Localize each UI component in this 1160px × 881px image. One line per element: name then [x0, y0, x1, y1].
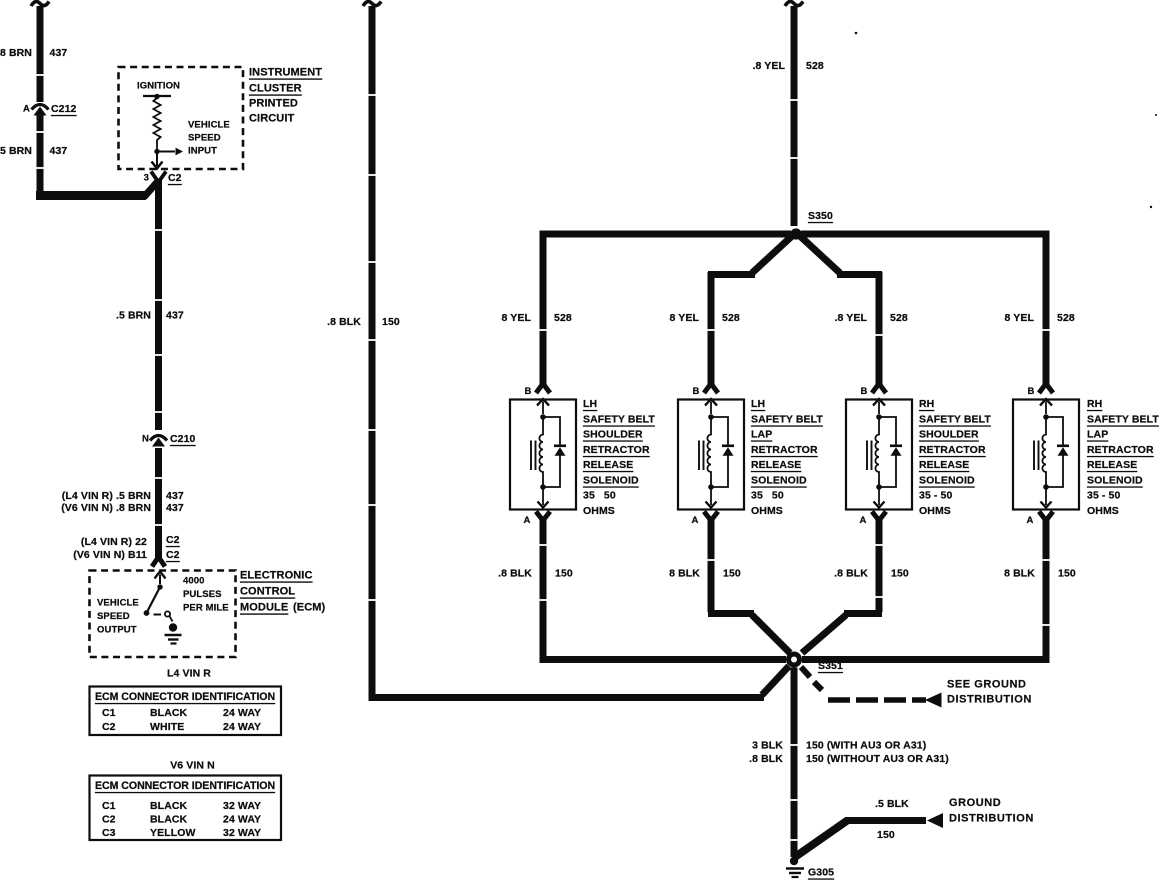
svg-text:OHMS: OHMS	[1087, 505, 1119, 517]
label solenoid description at x=919	[919, 398, 991, 517]
table: V6 VIN N ECM connector identification	[90, 776, 282, 841]
svg-text:RETRACTOR: RETRACTOR	[919, 444, 986, 456]
svg-text:C2: C2	[166, 534, 180, 546]
connector C2 pin 3 (male arrow up)	[151, 172, 159, 183]
svg-text:YELLOW: YELLOW	[150, 827, 196, 839]
svg-text:DISTRIBUTION: DISTRIBUTION	[949, 813, 1034, 825]
splice S351 junction ring	[786, 652, 802, 668]
svg-text:RELEASE: RELEASE	[583, 459, 633, 471]
svg-text:C3: C3	[102, 827, 116, 839]
svg-text:.5 BRN: .5 BRN	[116, 310, 151, 322]
svg-text:(L4 VIN R) .5 BRN: (L4 VIN R) .5 BRN	[62, 490, 151, 502]
svg-text:OUTPUT: OUTPUT	[97, 625, 137, 636]
svg-text:(L4 VIN R) 22: (L4 VIN R) 22	[81, 536, 147, 548]
svg-text:SAFETY BELT: SAFETY BELT	[1087, 414, 1159, 426]
svg-text:LH: LH	[583, 398, 597, 410]
svg-text:G305: G305	[808, 867, 834, 879]
svg-text:PULSES: PULSES	[183, 589, 222, 600]
svg-text:C1: C1	[102, 707, 116, 719]
svg-text:150: 150	[555, 568, 573, 580]
speck artifacts (decorative)	[855, 32, 858, 35]
svg-text:ECM CONNECTOR IDENTIFICATION: ECM CONNECTOR IDENTIFICATION	[95, 780, 275, 792]
svg-text:SHOULDER: SHOULDER	[583, 429, 643, 441]
svg-text:B: B	[693, 386, 700, 397]
svg-text:B: B	[1028, 386, 1035, 397]
svg-text:C1: C1	[102, 800, 116, 812]
svg-text:B: B	[861, 386, 868, 397]
svg-text:PRINTED: PRINTED	[249, 98, 298, 110]
svg-text:.8 BLK: .8 BLK	[498, 568, 532, 580]
svg-text:RELEASE: RELEASE	[1087, 459, 1137, 471]
svg-text:ECM CONNECTOR IDENTIFICATION: ECM CONNECTOR IDENTIFICATION	[95, 691, 275, 703]
svg-text:RH: RH	[1087, 398, 1102, 410]
svg-text:(V6 VIN N) B11: (V6 VIN N) B11	[73, 549, 147, 561]
svg-text:N: N	[142, 434, 149, 445]
svg-text:528: 528	[806, 60, 824, 72]
table: L4 VIN R ECM connector identification	[90, 687, 282, 736]
svg-text:.8 YEL: .8 YEL	[752, 60, 785, 72]
wire: .8 BLK 150 (middle, down to S351)	[372, 6, 764, 698]
svg-text:SEE GROUND: SEE GROUND	[947, 679, 1026, 691]
scan nicks (decorative)	[36, 74, 44, 76]
svg-text:L4 VIN R: L4 VIN R	[167, 668, 211, 680]
svg-text:.8 YEL: .8 YEL	[834, 312, 867, 324]
svg-text:8 YEL: 8 YEL	[670, 312, 700, 324]
node: switch pivot dot	[157, 584, 162, 589]
svg-text:SHOULDER: SHOULDER	[919, 429, 979, 441]
wire: diagonal from middle .8 BLK wire up to S351	[762, 666, 789, 695]
svg-text:IGNITION: IGNITION	[137, 81, 180, 92]
svg-text:.5 BLK: .5 BLK	[875, 798, 909, 810]
svg-text:A: A	[23, 104, 30, 115]
svg-text:.8 BLK: .8 BLK	[834, 568, 868, 580]
connector: harness terminal at solenoid top	[536, 384, 543, 394]
connector C212 (in-line, female arc over male arrow)	[32, 105, 49, 116]
svg-text:CONTROL: CONTROL	[240, 586, 295, 598]
svg-text:.5 BRN: .5 BRN	[0, 145, 32, 157]
svg-text:528: 528	[890, 312, 908, 324]
svg-text:S351: S351	[818, 660, 843, 672]
wire: dashed lead to SEE GROUND DISTRIBUTION	[801, 667, 810, 677]
svg-text:A: A	[860, 515, 867, 526]
contact: switch throw contact	[165, 611, 170, 616]
wire: break symbol at top of .8 BRN wire	[31, 2, 49, 7]
svg-text:C212: C212	[51, 103, 77, 115]
svg-text:8 BLK: 8 BLK	[1004, 568, 1035, 580]
svg-text:A: A	[1027, 515, 1034, 526]
resistor: instrument cluster printed-circuit resistor	[153, 98, 160, 149]
connector: harness terminal at solenoid bottom	[536, 512, 543, 521]
svg-text:ELECTRONIC: ELECTRONIC	[240, 570, 313, 582]
connector: ECM C2 terminal (wire end splay)	[152, 557, 159, 567]
solenoid: RH safety belt lap retractor release	[1013, 399, 1079, 510]
ground G305 symbol	[786, 857, 804, 877]
instrument cluster dashed box	[119, 67, 244, 169]
svg-text:3: 3	[144, 173, 149, 184]
connector: harness terminal at solenoid bottom	[704, 512, 711, 521]
svg-text:VEHICLE: VEHICLE	[97, 598, 139, 609]
svg-text:SOLENOID: SOLENOID	[751, 475, 807, 487]
wire: S350 diagonal to branch 2	[752, 236, 792, 273]
svg-text:RH: RH	[919, 398, 934, 410]
svg-text:32 WAY: 32 WAY	[223, 827, 261, 839]
svg-text:437: 437	[166, 502, 184, 514]
svg-text:SAFETY BELT: SAFETY BELT	[751, 414, 823, 426]
solenoid: RH safety belt shoulder retractor release	[846, 399, 912, 510]
wire: cluster output pin with down arrow	[156, 154, 158, 167]
wire: .5 BRN 437 to ECM	[155, 179, 162, 430]
svg-text:BLACK: BLACK	[150, 814, 188, 826]
svg-text:SAFETY BELT: SAFETY BELT	[919, 414, 991, 426]
svg-text:DISTRIBUTION: DISTRIBUTION	[947, 694, 1032, 706]
wire: .5 BLK branch to ground distribution	[795, 820, 848, 857]
svg-text:(V6 VIN N) .8 BRN: (V6 VIN N) .8 BRN	[61, 502, 151, 514]
connector: harness terminal at solenoid top	[1039, 384, 1046, 394]
switch: vehicle speed output switch arm	[147, 587, 160, 612]
wire: break symbol at top of .8 BLK wire	[363, 2, 381, 7]
solenoid: LH safety belt shoulder retractor release	[510, 399, 576, 510]
svg-text:RELEASE: RELEASE	[919, 459, 969, 471]
svg-text:LAP: LAP	[1087, 429, 1108, 441]
svg-text:C210: C210	[170, 433, 196, 445]
wire: S350 bus right to branch 4	[801, 234, 1046, 388]
svg-text:RELEASE: RELEASE	[751, 459, 801, 471]
svg-text:8 YEL: 8 YEL	[1005, 312, 1035, 324]
svg-text:150: 150	[382, 316, 400, 328]
svg-text:PER MILE: PER MILE	[183, 603, 229, 614]
wire: branch 3 down with jog and diagonal to S351	[876, 517, 883, 612]
svg-text:A: A	[524, 515, 531, 526]
ground: ECM internal ground	[165, 623, 182, 643]
svg-text:35 - 50: 35 - 50	[919, 490, 952, 502]
svg-text:VEHICLE: VEHICLE	[188, 120, 230, 131]
svg-text:S350: S350	[808, 210, 833, 222]
solenoid: LH safety belt lap retractor release	[678, 399, 744, 510]
svg-text:OHMS: OHMS	[583, 505, 615, 517]
svg-text:MODULE: MODULE	[240, 602, 288, 614]
svg-text:INSTRUMENT: INSTRUMENT	[249, 67, 322, 79]
wire: branch 4 down to S351 bus	[802, 517, 1046, 660]
svg-text:24 WAY: 24 WAY	[223, 707, 261, 719]
svg-text:B: B	[525, 386, 532, 397]
svg-text:150: 150	[877, 829, 895, 841]
svg-text:150: 150	[891, 568, 909, 580]
svg-text:528: 528	[1057, 312, 1075, 324]
svg-text:528: 528	[722, 312, 740, 324]
wire: .8 BRN 437 feed (top left)	[37, 6, 44, 102]
svg-text:35 - 50: 35 - 50	[1087, 490, 1120, 502]
node: junction dot on ignition bar	[154, 94, 159, 99]
wire: arrow to VEHICLE SPEED INPUT	[157, 151, 175, 153]
wire: branch 2 down with jog and diagonal to S351	[708, 517, 715, 612]
wire: horizontal run then diagonal up to connector C2	[36, 191, 146, 200]
connector: harness terminal at solenoid top	[704, 384, 711, 394]
svg-text:150: 150	[723, 568, 741, 580]
svg-text:528: 528	[554, 312, 572, 324]
svg-text:GROUND: GROUND	[949, 797, 1001, 809]
svg-text:RETRACTOR: RETRACTOR	[751, 444, 818, 456]
svg-text:.8 BLK: .8 BLK	[327, 316, 361, 328]
splice S350 junction dot	[790, 228, 801, 239]
wire: break symbol at top of .8 YEL wire	[785, 2, 803, 7]
svg-text:SPEED: SPEED	[188, 133, 221, 144]
svg-text:35 50: 35 50	[583, 490, 616, 502]
wire: branch 1 down to S351 bus	[543, 517, 786, 660]
svg-text:SAFETY BELT: SAFETY BELT	[583, 414, 655, 426]
ECM dashed box	[90, 571, 236, 658]
svg-text:C2: C2	[166, 549, 180, 561]
svg-text:SPEED: SPEED	[97, 611, 130, 622]
svg-text:C2: C2	[102, 721, 116, 733]
svg-text:8 BLK: 8 BLK	[669, 568, 700, 580]
svg-text:INPUT: INPUT	[188, 146, 217, 157]
svg-text:437: 437	[50, 47, 68, 59]
label solenoid description at x=583	[583, 398, 655, 517]
wire: S350 bus left to branch 1	[543, 234, 791, 388]
svg-text:C2: C2	[168, 172, 182, 184]
svg-text:437: 437	[166, 490, 184, 502]
svg-text:LAP: LAP	[751, 429, 772, 441]
svg-text:.8 BLK: .8 BLK	[749, 753, 783, 765]
svg-text:BLACK: BLACK	[150, 707, 188, 719]
svg-text:A: A	[692, 515, 699, 526]
svg-text:OHMS: OHMS	[751, 505, 783, 517]
svg-text:4000: 4000	[183, 576, 205, 587]
svg-text:C2: C2	[102, 814, 116, 826]
wire: S350 diagonal to branch 3	[800, 236, 840, 273]
svg-text:V6 VIN N: V6 VIN N	[170, 760, 215, 772]
svg-text:WHITE: WHITE	[150, 721, 184, 733]
svg-text:SOLENOID: SOLENOID	[1087, 475, 1143, 487]
svg-text:8 YEL: 8 YEL	[502, 312, 532, 324]
svg-text:CLUSTER: CLUSTER	[249, 83, 302, 95]
svg-text:24 WAY: 24 WAY	[223, 814, 261, 826]
node: vehicle speed input junction dot	[154, 149, 159, 154]
label solenoid description at x=751	[751, 398, 823, 517]
pin: ECM input arrow	[155, 572, 166, 579]
connector C210 (in-line)	[150, 436, 167, 447]
svg-text:LH: LH	[751, 398, 765, 410]
svg-text:35 50: 35 50	[751, 490, 784, 502]
svg-text:BLACK: BLACK	[150, 800, 188, 812]
svg-text:24 WAY: 24 WAY	[223, 721, 261, 733]
svg-text:437: 437	[50, 145, 68, 157]
wire: S351 down to G305	[791, 668, 798, 858]
svg-text:150 (WITHOUT AU3 OR A31): 150 (WITHOUT AU3 OR A31)	[806, 753, 949, 765]
svg-text:RETRACTOR: RETRACTOR	[583, 444, 650, 456]
svg-text:437: 437	[166, 310, 184, 322]
svg-text:3 BLK: 3 BLK	[752, 740, 783, 752]
svg-text:RETRACTOR: RETRACTOR	[1087, 444, 1154, 456]
svg-text:SOLENOID: SOLENOID	[583, 475, 639, 487]
svg-text:32 WAY: 32 WAY	[223, 800, 261, 812]
svg-text:150: 150	[1058, 568, 1076, 580]
connector: harness terminal at solenoid bottom	[1039, 512, 1046, 521]
svg-text:.8 BRN: .8 BRN	[0, 47, 32, 59]
label solenoid description at x=1087	[1087, 398, 1159, 517]
svg-text:(ECM): (ECM)	[293, 602, 326, 614]
connector: harness terminal at solenoid top	[872, 384, 879, 394]
svg-text:SOLENOID: SOLENOID	[919, 475, 975, 487]
wire: .8 YEL 528 feed	[791, 6, 798, 226]
svg-text:CIRCUIT: CIRCUIT	[249, 113, 294, 125]
connector: harness terminal at solenoid bottom	[872, 512, 879, 521]
svg-text:OHMS: OHMS	[919, 505, 951, 517]
svg-text:150 (WITH AU3 OR A31): 150 (WITH AU3 OR A31)	[806, 740, 926, 752]
wire: ignition feed bar	[143, 95, 171, 97]
